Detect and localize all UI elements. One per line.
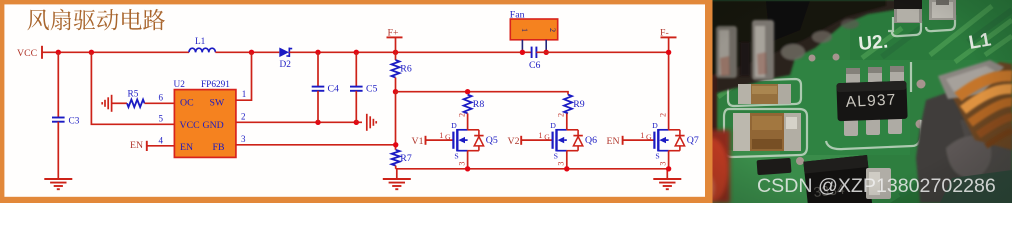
pin label G Q7 xyxy=(646,132,652,141)
chip AL937 body xyxy=(836,81,907,121)
ground at pin2 xyxy=(367,114,376,131)
port EN tick xyxy=(146,141,148,151)
capacitor C3 xyxy=(52,118,65,122)
net label EN (pin4) xyxy=(130,140,143,151)
pin label G Q5 xyxy=(445,132,451,141)
svg-text:3: 3 xyxy=(457,162,466,166)
wire C6 to F- xyxy=(536,51,668,53)
wire bottom rail xyxy=(396,168,669,170)
inductor ferrite xyxy=(916,88,1012,203)
pin number 2 Q6 xyxy=(557,113,566,117)
wire pin5 feed xyxy=(91,52,174,124)
node junction Fan pin1 xyxy=(520,50,525,55)
svg-text:V1: V1 xyxy=(412,136,424,147)
op-amp U2 FP6291 body xyxy=(174,90,236,158)
red component left edge xyxy=(694,130,730,203)
port V2 tick xyxy=(520,136,522,145)
chip AL937 pins xyxy=(844,66,904,136)
pin number 4 xyxy=(159,135,164,145)
svg-text:V2: V2 xyxy=(508,136,520,147)
pin name OC xyxy=(180,98,194,109)
connector pin number 2 xyxy=(548,28,557,32)
photo base PCB green xyxy=(705,0,1012,203)
wire FB pin3 xyxy=(236,144,396,146)
svg-text:4: 4 xyxy=(159,135,164,145)
node junction F- xyxy=(666,50,671,55)
svg-text:3: 3 xyxy=(241,134,246,144)
node junction C4 tap xyxy=(315,50,320,55)
label Q5 xyxy=(486,135,498,146)
title 风扇驱动电路 xyxy=(27,9,165,31)
label Q7 xyxy=(687,135,699,146)
silkscreen lines xyxy=(724,15,955,157)
label U2 xyxy=(174,80,186,90)
small dark smd mid-left xyxy=(757,158,792,175)
wire SW pin1 to top xyxy=(236,52,252,100)
pin number 2 xyxy=(241,111,246,121)
node junction R8 top xyxy=(465,89,470,94)
svg-text:Fan: Fan xyxy=(510,9,525,20)
pin label S Q7 xyxy=(655,152,659,161)
pin name VCC xyxy=(180,120,200,131)
bottom chip 3334 xyxy=(803,155,872,211)
svg-text:3: 3 xyxy=(658,162,667,166)
ground below C3 xyxy=(44,179,72,189)
svg-text:G: G xyxy=(544,132,550,141)
pin name FB xyxy=(213,142,225,153)
label R8 xyxy=(473,99,485,110)
svg-text:S: S xyxy=(655,152,659,161)
smd resistor top xyxy=(894,0,922,23)
node junction SW tap xyxy=(249,50,254,55)
body diode Q5 xyxy=(468,130,484,151)
label Fan xyxy=(510,9,525,20)
svg-text:U2: U2 xyxy=(174,80,186,90)
svg-text:R7: R7 xyxy=(400,153,412,164)
transistor Q5 xyxy=(453,129,467,151)
svg-text:EN: EN xyxy=(180,142,193,153)
pin label G Q6 xyxy=(544,132,550,141)
ground right of bottom rail xyxy=(653,169,681,189)
svg-text:2: 2 xyxy=(457,113,466,117)
svg-text:D: D xyxy=(451,121,457,130)
pcb pads pink xyxy=(796,54,926,166)
label R6 xyxy=(400,64,412,75)
tan capacitor upper xyxy=(738,84,791,104)
svg-text:S: S xyxy=(554,152,558,161)
svg-text:FP6291: FP6291 xyxy=(201,80,230,90)
pcb shading xyxy=(705,0,1012,203)
node junction VCC-pin5 tap xyxy=(89,50,94,55)
bottom right dark xyxy=(940,170,1012,203)
svg-text:GND: GND xyxy=(203,120,224,131)
pin name SW xyxy=(210,98,225,109)
pin number 1 Q6 xyxy=(538,131,542,140)
label C3 xyxy=(69,117,80,127)
inductor copper backing xyxy=(950,62,1012,150)
node junction source Q5 xyxy=(465,166,470,171)
wire C3 to ground xyxy=(57,122,59,179)
node junction source Q7 xyxy=(666,166,671,171)
pin number 1 Q7 xyxy=(640,131,644,140)
port EN tick xyxy=(622,136,624,145)
node junction source Q6 xyxy=(564,166,569,171)
pcb trace highlights xyxy=(718,6,1012,97)
wire source Q6 xyxy=(566,151,568,169)
schematic frame border xyxy=(0,0,713,203)
pin name GND xyxy=(203,120,224,131)
connector pins xyxy=(716,20,774,80)
svg-text:1: 1 xyxy=(640,131,644,140)
body diode Q7 xyxy=(669,130,685,151)
net label V2 xyxy=(508,136,520,147)
ground at R5 xyxy=(102,95,111,112)
svg-text:D: D xyxy=(652,121,658,130)
label D2 xyxy=(280,60,292,70)
svg-text:C5: C5 xyxy=(366,84,378,95)
inductor copper winding xyxy=(958,76,1012,146)
svg-text:S: S xyxy=(454,152,458,161)
svg-text:G: G xyxy=(646,132,652,141)
resistor R9 xyxy=(564,95,572,114)
label C6 xyxy=(529,60,541,71)
capacitor C5 xyxy=(350,87,363,91)
pin number 6 xyxy=(159,93,164,103)
resistor R5 xyxy=(127,100,145,108)
pin name EN xyxy=(180,142,193,153)
port V1 tick xyxy=(425,136,427,145)
svg-text:VCC: VCC xyxy=(17,48,37,59)
svg-text:1: 1 xyxy=(242,89,247,99)
node junction C5 bottom xyxy=(354,120,359,125)
pin number 1 xyxy=(242,89,247,99)
wire F- down xyxy=(668,37,670,52)
wire GND pin2 xyxy=(236,121,362,123)
pin number 3 Q6 xyxy=(557,162,566,166)
wire source Q5 xyxy=(467,151,469,169)
transistor Q7 xyxy=(654,129,668,151)
wire C4 top lead xyxy=(317,52,319,86)
svg-text:D2: D2 xyxy=(280,60,292,70)
svg-text:C6: C6 xyxy=(529,60,541,71)
node junction Fan pin2 xyxy=(544,50,549,55)
wire C5 bottom lead xyxy=(355,91,357,123)
connector pin number 1 xyxy=(520,28,529,32)
pin number 2 Q7 xyxy=(658,113,667,117)
pin label D Q7 xyxy=(652,121,658,130)
svg-text:VCC: VCC xyxy=(180,120,200,131)
wire EN to gate Q7 xyxy=(623,139,655,141)
node junction C4 bottom xyxy=(315,120,320,125)
pin number 2 Q5 xyxy=(457,113,466,117)
wire drain Q6 xyxy=(566,113,568,129)
svg-text:D: D xyxy=(550,121,556,130)
svg-text:2: 2 xyxy=(241,111,246,121)
wire V1 to gate Q5 xyxy=(426,139,454,141)
node junction C5 tap xyxy=(354,50,359,55)
port F- bar xyxy=(661,36,677,38)
label C4 xyxy=(328,84,340,95)
net label F- xyxy=(660,27,669,38)
svg-text:R6: R6 xyxy=(400,64,412,75)
svg-text:SW: SW xyxy=(210,98,225,109)
label L1 xyxy=(195,37,206,47)
diode D2 xyxy=(279,48,292,58)
svg-text:OC: OC xyxy=(180,98,194,109)
pin number 1 Q5 xyxy=(439,131,443,140)
capacitor C4 xyxy=(312,87,325,91)
resistor R8 xyxy=(464,95,472,114)
smd capacitor top xyxy=(929,0,956,20)
net label VCC xyxy=(17,48,37,59)
connector top-left dark xyxy=(703,0,900,140)
resistor R6 xyxy=(392,60,400,78)
port VCC tick xyxy=(41,46,43,59)
svg-text:1: 1 xyxy=(520,28,529,32)
wire rail to R7 xyxy=(395,92,397,150)
svg-text:C4: C4 xyxy=(328,84,340,95)
port F+ bar xyxy=(387,36,403,38)
capacitor C6 xyxy=(532,47,537,58)
wire R7 to bottom rail xyxy=(395,166,397,169)
pin label S Q5 xyxy=(454,152,458,161)
svg-text:EN: EN xyxy=(130,140,143,151)
net label F+ xyxy=(388,27,399,38)
label R9 xyxy=(573,99,585,110)
svg-text:3: 3 xyxy=(557,162,566,166)
wire F+ down xyxy=(395,37,397,60)
pin label D Q5 xyxy=(451,121,457,130)
pin number 5 xyxy=(159,114,164,124)
net label V1 xyxy=(412,136,424,147)
body diode Q6 xyxy=(567,130,583,151)
svg-text:1: 1 xyxy=(538,131,542,140)
svg-text:FB: FB xyxy=(213,142,225,153)
wire EN to pin4 xyxy=(147,145,175,147)
wire VCC to L1 xyxy=(42,51,189,53)
svg-text:G: G xyxy=(445,132,451,141)
wire D2 to C6 xyxy=(289,51,531,53)
wire L1 to D2 xyxy=(215,51,279,53)
node junction FB-R7 xyxy=(393,142,398,147)
wire Fan pin2 lead xyxy=(545,40,547,53)
pin label S Q6 xyxy=(554,152,558,161)
svg-text:R9: R9 xyxy=(573,99,585,110)
transistor Q6 xyxy=(553,129,567,151)
pin number 3 Q7 xyxy=(658,162,667,166)
wire Fan pin1 lead xyxy=(521,40,523,53)
svg-text:C3: C3 xyxy=(69,117,80,127)
photo vignette xyxy=(705,0,1012,203)
wire drain rail xyxy=(396,92,569,95)
label R5 xyxy=(128,90,139,100)
label R7 xyxy=(400,153,412,164)
label C5 xyxy=(366,84,378,95)
wire drain Q7 xyxy=(668,52,670,130)
inductor solder top xyxy=(938,60,1004,99)
inductor L1 xyxy=(189,48,215,52)
svg-text:2: 2 xyxy=(548,28,557,32)
connector Fan body xyxy=(510,19,557,40)
pin number 3 xyxy=(241,134,246,144)
svg-text:R8: R8 xyxy=(473,99,485,110)
svg-text:Q5: Q5 xyxy=(486,135,498,146)
pin label D Q6 xyxy=(550,121,556,130)
wire drain Q5 xyxy=(467,113,469,129)
label Q6 xyxy=(585,135,597,146)
node junction C3 tap xyxy=(56,50,61,55)
resistor R7 xyxy=(392,150,400,166)
svg-text:6: 6 xyxy=(159,93,164,103)
svg-text:EN: EN xyxy=(607,136,620,147)
wire ground to R5 xyxy=(112,102,127,104)
wire R5 to pin6 xyxy=(145,102,175,104)
svg-text:R5: R5 xyxy=(128,90,139,100)
svg-text:2: 2 xyxy=(557,113,566,117)
svg-text:1: 1 xyxy=(439,131,443,140)
label FP6291 xyxy=(201,80,230,90)
wire R6 to rail xyxy=(395,78,397,92)
ground left of bottom rail xyxy=(383,169,411,189)
svg-text:CSDN @XZP13802702286: CSDN @XZP13802702286 xyxy=(757,175,996,197)
pin number 3 Q5 xyxy=(457,162,466,166)
svg-text:L1: L1 xyxy=(195,37,206,47)
node junction drain rail xyxy=(393,89,398,94)
svg-text:5: 5 xyxy=(159,114,164,124)
svg-text:2: 2 xyxy=(658,113,667,117)
svg-text:Q6: Q6 xyxy=(585,135,597,146)
wire C5 top lead xyxy=(355,52,357,86)
wire C3 branch xyxy=(57,52,59,117)
wire C4 bottom lead xyxy=(317,91,319,123)
net label EN xyxy=(607,136,620,147)
node junction F+ tap xyxy=(393,50,398,55)
wire source Q7 xyxy=(668,151,670,169)
wire V2 to gate Q6 xyxy=(521,139,552,141)
svg-text:Q7: Q7 xyxy=(687,135,699,146)
tan capacitor lower xyxy=(733,113,801,151)
